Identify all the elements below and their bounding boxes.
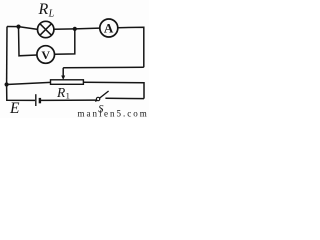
wire lamp to junction J2 xyxy=(54,28,75,30)
ammeter U-A xyxy=(100,19,118,37)
node junction left xyxy=(5,82,9,86)
svg-text:V: V xyxy=(41,48,50,62)
svg-text:manfen5.com: manfen5.com xyxy=(78,109,149,119)
switch S xyxy=(95,91,108,102)
voltmeter U-V xyxy=(37,46,55,64)
rheostat R1 body xyxy=(51,80,84,85)
wire ammeter right and down to slider wire xyxy=(118,27,144,67)
wire voltmeter right up to junction J2 xyxy=(55,29,75,54)
svg-text:A: A xyxy=(104,21,114,36)
node junction top-left xyxy=(16,25,20,29)
wire junction to lamp xyxy=(19,27,38,30)
wire switch to right vertical xyxy=(105,97,144,99)
battery E xyxy=(36,94,40,106)
wire top-left corner to junction xyxy=(7,26,19,28)
lamp RL xyxy=(38,21,54,37)
svg-text:E: E xyxy=(9,100,20,117)
wire slider horizontal xyxy=(63,66,144,69)
wire inner vertical to voltmeter xyxy=(19,27,37,56)
wire left vertical upper xyxy=(6,27,8,85)
wire left junction to rheostat left xyxy=(7,82,51,84)
wire battery to switch xyxy=(41,99,96,101)
rheostat slider arrow xyxy=(61,68,65,80)
node junction J2 xyxy=(73,27,77,31)
wire junction J2 to ammeter xyxy=(75,27,100,30)
wire right vertical and rheostat right xyxy=(83,82,144,98)
wire left vertical lower to battery xyxy=(7,85,35,101)
